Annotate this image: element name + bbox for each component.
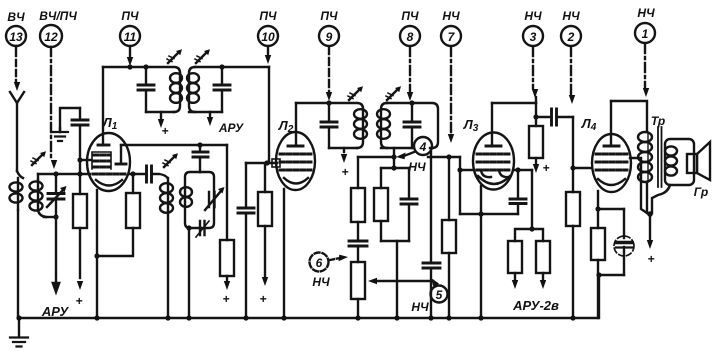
node cathode bypass xyxy=(515,167,520,172)
probe lead from 12 (dash-dot) xyxy=(51,47,57,169)
svg-text:Гр: Гр xyxy=(694,185,708,199)
arrow IF1 primary supply xyxy=(158,112,164,128)
test point 3 (НЧ) xyxy=(523,9,543,46)
probe lead from 8 (dashed) xyxy=(407,47,413,101)
resistor R8 (AGC divider a) xyxy=(508,241,522,273)
wire RC filter to bus xyxy=(396,241,398,318)
svg-text:ВЧ: ВЧ xyxy=(7,10,25,24)
capacitor C9 (grid leak) xyxy=(238,208,254,318)
wire Л3 grid branch xyxy=(459,157,461,170)
trimmer core arrow IF1 secondary xyxy=(195,49,210,63)
tube Л2 anode bar xyxy=(288,103,303,146)
svg-text:+: + xyxy=(75,294,82,308)
wire Л3 anode top rail xyxy=(492,102,536,104)
IF1 secondary bottom rail xyxy=(189,111,222,113)
node AF takeoff R5 xyxy=(446,154,451,159)
wire Л4 grid stub xyxy=(573,167,592,169)
variable capacitor C1 (tuning) xyxy=(47,174,67,216)
resistor R5 (AF load) xyxy=(442,157,456,318)
node bus: C9 xyxy=(243,315,248,320)
wire Л3 cathode center to rail xyxy=(460,169,474,171)
wire Л2 cathode to bus xyxy=(283,189,285,318)
node tank bottom xyxy=(53,214,58,219)
wire cathode to divider xyxy=(531,170,533,229)
resistor R3 xyxy=(220,240,234,276)
capacitor C12 (detector filter) xyxy=(423,263,440,318)
svg-text:ПЧ: ПЧ xyxy=(320,9,338,23)
svg-text:НЧ: НЧ xyxy=(524,9,542,23)
svg-text:4: 4 xyxy=(419,140,427,154)
wire cathode return rail xyxy=(460,213,518,215)
tube Л4 envelope xyxy=(592,134,631,192)
capacitor C15 (cathode bypass) xyxy=(510,170,526,214)
svg-text:8: 8 xyxy=(407,30,414,44)
svg-text:АРУ: АРУ xyxy=(218,121,244,135)
svg-text:НЧ: НЧ xyxy=(411,300,429,314)
wire cathode to bus corner xyxy=(597,275,599,318)
wire RC filter top xyxy=(393,157,395,168)
capacitor C8 (IF1 secondary) xyxy=(214,67,230,112)
cathode RC top rail xyxy=(598,208,624,210)
arrow R10 supply xyxy=(533,164,539,173)
IF1 secondary tank top rail xyxy=(195,66,269,68)
wire grid RC branch down xyxy=(245,163,247,207)
arrow from point 6 to volume chain xyxy=(330,255,348,262)
node Л2 grid junction xyxy=(264,160,269,165)
IF transformer 1 primary tank top rail xyxy=(103,67,180,73)
test point 6 (НЧ) xyxy=(310,253,331,290)
svg-text:АРУ-2в: АРУ-2в xyxy=(512,298,559,313)
svg-text:10: 10 xyxy=(261,30,275,44)
node osc anode tap xyxy=(197,142,202,147)
trimmer core arrow IF1 primary xyxy=(167,49,182,63)
wire volume feed xyxy=(358,156,394,158)
svg-text:11: 11 xyxy=(124,30,137,44)
wire L1a bottom to bus xyxy=(17,210,19,318)
svg-text:5: 5 xyxy=(436,288,443,302)
node bus: osc tank xyxy=(186,315,191,320)
svg-text:НЧ: НЧ xyxy=(312,275,330,289)
capacitor C10 (IF2 primary) xyxy=(321,103,337,148)
output transformer primary coil xyxy=(638,132,652,182)
resistor R12 (cathode Л4) xyxy=(591,209,605,275)
svg-text:1: 1 xyxy=(642,27,649,41)
capacitor C13 (filter) xyxy=(401,168,417,241)
node cathode rail xyxy=(595,206,600,211)
node osc tank bottom xyxy=(186,225,191,230)
capacitor C3 (osc coupling) xyxy=(147,166,168,182)
svg-text:3: 3 xyxy=(530,30,537,44)
probe lead from 1 (dash-dot) xyxy=(643,44,649,97)
node bus: R11 xyxy=(570,315,575,320)
node bus: Л3 return xyxy=(478,315,483,320)
tube Л3 grids (dashed) xyxy=(477,154,510,170)
test point 4 (НЧ, inline) xyxy=(408,137,432,174)
RC filter box top rail xyxy=(381,167,409,169)
tube Л3 cathode arc xyxy=(478,176,510,184)
svg-text:НЧ: НЧ xyxy=(562,9,580,23)
svg-text:+: + xyxy=(647,252,654,266)
node bus: RC filter xyxy=(394,315,399,320)
node transformer return xyxy=(647,211,653,217)
svg-text:+: + xyxy=(259,292,266,306)
tube Л4 grids (dashed) xyxy=(596,154,627,170)
node IF1 cap tap xyxy=(143,64,148,69)
trimmer core arrow IF2 primary xyxy=(348,86,363,100)
svg-text:Тр: Тр xyxy=(651,114,665,128)
test point 12 (ВЧ/ПЧ) xyxy=(39,9,77,47)
arrow AGC down xyxy=(53,274,59,292)
wire R1 to supply xyxy=(79,228,81,278)
capacitor C14 (volume coupling) xyxy=(349,241,367,262)
arrow transformer supply xyxy=(647,216,653,249)
oscillator tank L2b box xyxy=(180,172,214,228)
wire IF1 secondary to Л2 grid xyxy=(268,67,270,163)
test point 1 (НЧ) xyxy=(635,6,655,43)
arrow potentiometer wiper xyxy=(368,278,433,284)
tube Л3 anode bar xyxy=(486,103,501,146)
wire C2 line crossing rail down to R1 xyxy=(79,160,81,194)
IF1 primary coil L3a xyxy=(170,73,182,112)
node IF2 secondary cap tap xyxy=(409,100,414,105)
node bus: Л2 cathode xyxy=(281,315,286,320)
wire Л2 grid line xyxy=(246,162,277,164)
svg-text:+: + xyxy=(222,292,229,306)
probe lead from 2 (dash-dot) xyxy=(569,47,575,104)
capacitor C7 (IF1 primary) xyxy=(138,67,154,112)
node return rail to bus xyxy=(478,211,483,216)
svg-text:АРУ: АРУ xyxy=(41,304,70,319)
trimmer core arrow of osc coil xyxy=(163,153,178,167)
wire Л1 triode anode to oscillator xyxy=(121,144,227,146)
wire Л1 cathode down to bus xyxy=(96,190,98,318)
svg-text:7: 7 xyxy=(448,30,456,44)
arrow from point 4 to detector node xyxy=(396,152,414,159)
wire grid stub to Л1 xyxy=(80,159,91,161)
svg-text:2: 2 xyxy=(567,30,575,44)
wire primary bottom xyxy=(646,182,648,213)
wire osc tank to bus xyxy=(188,228,190,318)
node Л4 grid xyxy=(570,165,575,170)
node IF1 secondary cap tap xyxy=(219,64,224,69)
node cathode / R2 return xyxy=(94,253,99,258)
wire Л4 anode to transformer xyxy=(611,101,647,132)
tube Л4 anode bar xyxy=(604,101,619,146)
wire Л4 cathode down xyxy=(597,191,599,209)
svg-text:12: 12 xyxy=(44,30,58,44)
IF2 secondary coil L4b xyxy=(377,103,390,148)
svg-text:ПЧ: ПЧ xyxy=(401,9,419,23)
wire tank top rail xyxy=(38,173,90,175)
node divider top xyxy=(529,226,534,231)
probe lead from 10 xyxy=(265,46,271,64)
node detector output xyxy=(391,154,396,159)
IF2 secondary bottom rail xyxy=(381,147,432,149)
svg-text:+: + xyxy=(542,161,549,175)
variable capacitor C5 (osc tuning) xyxy=(205,187,225,210)
test point 10 (ПЧ) xyxy=(258,9,278,46)
node Л3 grid xyxy=(457,167,462,172)
cathode RC bottom rail xyxy=(598,274,624,276)
test point 7 (НЧ) xyxy=(441,9,461,46)
wire osc supply branch xyxy=(226,145,228,240)
test point 9 (ПЧ) xyxy=(319,9,339,46)
ground bypass wire xyxy=(60,108,80,131)
IF2 primary bottom rail xyxy=(329,147,357,149)
test point 11 (ПЧ) xyxy=(120,9,140,46)
test point 2 (НЧ) xyxy=(561,9,581,46)
ground symbol (input) xyxy=(52,128,68,141)
resistor R2 xyxy=(97,174,140,256)
svg-text:НЧ: НЧ xyxy=(408,160,426,174)
node rail crossing xyxy=(77,171,82,176)
svg-text:НЧ: НЧ xyxy=(637,6,655,20)
ground bus wire xyxy=(19,275,599,318)
IF1 secondary coil L3b xyxy=(187,67,199,112)
IF2 primary coil L4a xyxy=(354,109,367,148)
wire return rail to bus xyxy=(480,186,482,318)
capacitor C16 (coupling to Л4) xyxy=(536,109,573,125)
potentiometer R7 (volume) xyxy=(351,262,365,318)
node R2 tap xyxy=(130,171,135,176)
node bus: C12 xyxy=(428,315,433,320)
svg-text:+: + xyxy=(341,165,348,179)
trimmer core arrow of input coil xyxy=(31,151,46,165)
tube Л1 envelope xyxy=(87,133,130,191)
wire detector node line to Л3 xyxy=(428,156,460,158)
capacitor C4 (osc tank top) xyxy=(193,145,208,172)
node cathode rail to bus xyxy=(596,272,601,277)
wire anode load drop xyxy=(535,103,537,117)
node grid of Л1 xyxy=(77,157,82,162)
wire Л4 screen to supply xyxy=(630,158,647,213)
IF2 secondary tank top rail xyxy=(387,103,438,148)
probe lead from 11 xyxy=(127,46,133,66)
node IF2 primary cap tap xyxy=(326,100,331,105)
probe lead from 7 (dash-dot) xyxy=(448,47,454,143)
node tank top / C var xyxy=(53,171,58,176)
tube Л4 cathode arc xyxy=(598,179,625,185)
transformer core xyxy=(658,127,662,187)
capacitor C11 (IF2 secondary) xyxy=(404,103,420,148)
svg-text:+: + xyxy=(161,124,168,138)
arrow IF1 AGC xyxy=(207,112,213,126)
wire grid leak down xyxy=(459,170,461,214)
padder trimmer C6 xyxy=(196,221,209,237)
tube Л1 cathode arc xyxy=(96,180,122,186)
tube Л2 envelope xyxy=(276,132,315,190)
svg-text:6: 6 xyxy=(316,256,323,270)
trimmer core arrow IF2 secondary xyxy=(386,86,401,100)
volume divider branch xyxy=(351,157,365,240)
node anode load xyxy=(533,114,538,119)
svg-text:13: 13 xyxy=(9,30,23,44)
svg-text:Л4: Л4 xyxy=(581,116,597,133)
IF1 primary bottom rail xyxy=(146,111,174,113)
resistor R4 (screen) branch xyxy=(258,163,272,276)
wire Л3 cathode right xyxy=(513,169,532,171)
tube Л1 grids (dashed) xyxy=(93,155,127,174)
tube Л3 envelope xyxy=(473,133,514,190)
node bus: Л1 cathode xyxy=(94,315,99,320)
arrow R1 supply xyxy=(77,281,83,290)
test point 5 (НЧ) xyxy=(411,286,447,315)
oscillator coil L2a xyxy=(160,178,173,213)
resistor R9 (AGC divider b) xyxy=(536,241,550,273)
wire AGC line down xyxy=(55,217,57,272)
node bus: osc coil xyxy=(165,315,170,320)
output transformer secondary coil xyxy=(665,139,694,185)
arrow R3 supply xyxy=(224,281,230,290)
test point 8 (ПЧ) xyxy=(400,9,420,46)
IF transformer 2 primary tank xyxy=(296,103,363,109)
node IF1 feed (from point 11) xyxy=(127,64,132,69)
wire L2a to bus xyxy=(167,212,169,318)
tube Л1 triode anode xyxy=(116,145,126,164)
svg-text:9: 9 xyxy=(326,30,333,44)
arrow R8 down xyxy=(512,273,518,289)
svg-text:ВЧ/ПЧ: ВЧ/ПЧ xyxy=(39,9,77,23)
svg-text:НЧ: НЧ xyxy=(442,9,460,23)
wire Л4 grid feed xyxy=(572,117,574,192)
tube Л2 grids (dashed) xyxy=(280,154,311,170)
electrolytic capacitor C17 (cathode bypass) xyxy=(614,209,634,275)
loudspeaker Гр xyxy=(687,142,710,180)
arrow R4 supply xyxy=(262,277,268,286)
wire point 4 down through C12 xyxy=(430,152,432,262)
arrow IF2 primary supply xyxy=(341,148,347,163)
antenna W1 xyxy=(10,92,24,171)
wire detector tap xyxy=(393,148,395,156)
wire R3 down xyxy=(226,276,228,282)
input coil L1b (secondary) xyxy=(30,174,47,217)
probe lead from 13 to antenna xyxy=(14,46,20,91)
resistor R1 xyxy=(73,194,87,228)
resistor R10 (anode load) xyxy=(529,117,543,164)
wire secondary bottom return xyxy=(652,185,670,213)
node bus: R5 xyxy=(446,315,451,320)
wire antenna to coil L1a xyxy=(17,171,23,178)
wire tank bottom rail xyxy=(44,216,56,218)
resistor R11 (grid leak Л4) xyxy=(566,192,580,318)
probe lead from 3 (dash-dot) xyxy=(532,47,538,103)
svg-text:Л3: Л3 xyxy=(463,117,479,134)
resistor R6 (filter) xyxy=(374,168,388,241)
svg-text:ПЧ: ПЧ xyxy=(259,9,277,23)
probe lead from 9 (dashed) xyxy=(326,47,332,101)
node bus: antenna coil xyxy=(16,315,21,320)
test point 13 (ВЧ) xyxy=(6,10,26,46)
svg-text:ПЧ: ПЧ xyxy=(121,9,139,23)
tube Л1 anode bar xyxy=(98,67,109,145)
node RC filter top xyxy=(391,165,396,170)
tube Л2 cathode arc xyxy=(284,178,308,184)
antenna coil L1a (primary) xyxy=(10,178,23,210)
wire Л1 grid2 rail to coupling cap xyxy=(129,173,144,175)
arrow from point 5 to C12 line xyxy=(431,278,439,288)
RC filter box bottom rail xyxy=(381,240,409,242)
wire divider T xyxy=(515,229,543,241)
node bus: volume pot xyxy=(355,315,360,320)
chassis ground symbol xyxy=(10,318,28,347)
arrow R9 down xyxy=(540,273,546,289)
capacitor C2 (grid decoupling) xyxy=(72,108,88,158)
